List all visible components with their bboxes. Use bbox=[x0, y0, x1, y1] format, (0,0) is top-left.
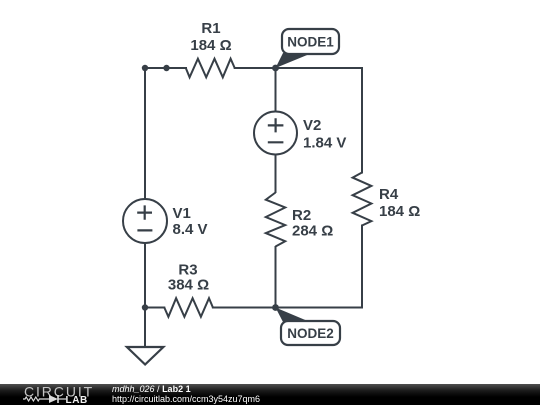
wire right branch lower bbox=[361, 226, 363, 308]
resistor R3 bbox=[164, 262, 213, 317]
CircuitLab logo bbox=[0, 384, 110, 405]
junction dot NODE1 bbox=[272, 65, 279, 72]
wire left branch vertical bbox=[144, 68, 146, 199]
svg-text:V1: V1 bbox=[173, 205, 191, 222]
resistor R4 bbox=[353, 173, 421, 226]
svg-text:184 Ω: 184 Ω bbox=[190, 37, 231, 54]
wire left branch lower vertical bbox=[144, 243, 146, 308]
wire middle branch R2 to bottom bbox=[275, 247, 277, 308]
wire top horizontal bbox=[145, 67, 186, 69]
svg-text:1.84 V: 1.84 V bbox=[303, 135, 346, 152]
svg-text:8.4 V: 8.4 V bbox=[173, 221, 208, 238]
junction dot NODE2 bbox=[272, 304, 279, 311]
svg-text:NODE2: NODE2 bbox=[287, 326, 334, 341]
resistor R1 bbox=[186, 20, 235, 77]
wire middle branch V2 top bbox=[275, 68, 277, 112]
svg-text:R4: R4 bbox=[379, 186, 399, 203]
node NODE1 callout bbox=[276, 29, 340, 68]
svg-text:184 Ω: 184 Ω bbox=[379, 203, 420, 220]
svg-text:NODE1: NODE1 bbox=[287, 35, 334, 50]
footer bar bbox=[0, 384, 540, 405]
wire top horizontal right of R1 bbox=[235, 67, 362, 69]
svg-text:V2: V2 bbox=[303, 117, 321, 134]
junction dot top wire bbox=[163, 65, 169, 71]
svg-text:384 Ω: 384 Ω bbox=[168, 277, 209, 294]
svg-text:R2: R2 bbox=[292, 207, 311, 224]
svg-text:R1: R1 bbox=[201, 20, 220, 37]
ground bbox=[127, 347, 163, 365]
wire middle branch V2 to R2 bbox=[275, 155, 277, 193]
node NODE2 callout bbox=[276, 308, 341, 346]
wire bottom horizontal right of R3 bbox=[213, 307, 362, 309]
footer title text bbox=[112, 385, 260, 404]
voltage source V1 bbox=[123, 199, 208, 243]
wire ground lead bbox=[144, 308, 146, 348]
voltage source V2 bbox=[254, 112, 346, 155]
wire bottom horizontal left bbox=[145, 307, 164, 309]
svg-text:LAB: LAB bbox=[66, 395, 88, 405]
svg-text:284 Ω: 284 Ω bbox=[292, 223, 333, 240]
junction dot left corner bbox=[142, 65, 148, 71]
junction dot bottom left bbox=[142, 304, 148, 310]
resistor R2 bbox=[266, 193, 333, 247]
wire right branch upper bbox=[361, 68, 363, 173]
